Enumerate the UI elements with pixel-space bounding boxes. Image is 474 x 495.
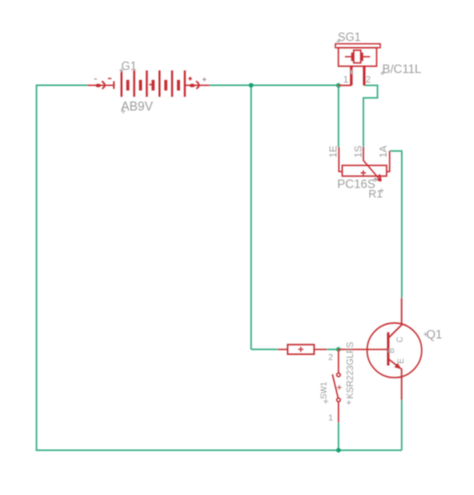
svg-text:1S: 1S xyxy=(353,145,364,158)
svg-text:E: E xyxy=(396,358,405,363)
svg-text:C: C xyxy=(396,337,405,343)
svg-text:1: 1 xyxy=(343,74,348,84)
svg-text:1E: 1E xyxy=(328,145,339,158)
svg-text:KSR223GLFS: KSR223GLFS xyxy=(345,342,355,399)
svg-text:G1: G1 xyxy=(121,61,136,73)
svg-text:B: B xyxy=(387,348,396,353)
svg-text:R1: R1 xyxy=(369,189,383,201)
svg-text:SG1: SG1 xyxy=(338,32,361,44)
svg-text:Q1: Q1 xyxy=(426,328,442,342)
svg-text:SW1: SW1 xyxy=(319,381,328,399)
svg-text:2: 2 xyxy=(366,74,371,84)
svg-text:1A: 1A xyxy=(379,145,390,158)
svg-text:1: 1 xyxy=(328,412,333,422)
svg-text:2: 2 xyxy=(328,352,333,362)
svg-text:B/C11L: B/C11L xyxy=(382,62,421,76)
svg-text:AB9V: AB9V xyxy=(121,99,154,113)
